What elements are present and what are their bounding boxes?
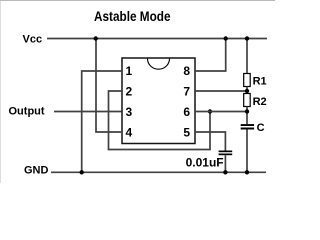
- GND rail wire: [51, 171, 266, 173]
- svg-text:0.01uF: 0.01uF: [186, 155, 224, 169]
- svg-text:Astable Mode: Astable Mode: [94, 8, 171, 24]
- wire pin1 to GND: [82, 71, 122, 172]
- svg-text:5: 5: [183, 125, 190, 139]
- node pin2-pin6 junction: [208, 109, 212, 113]
- node pin1-GND junction: [80, 170, 84, 174]
- wire C to GND: [246, 130, 248, 173]
- wire pin4 to Vcc: [96, 39, 122, 133]
- svg-text:GND: GND: [24, 165, 49, 177]
- node pin8-Vcc junction: [224, 36, 228, 40]
- frame edge left: [0, 1, 1, 183]
- svg-text:Output: Output: [9, 106, 45, 118]
- wire bypass cap to GND: [224, 155, 226, 172]
- wire pin3 output: [54, 111, 122, 113]
- svg-text:4: 4: [126, 125, 133, 139]
- node Vcc-R1 junction: [245, 36, 249, 40]
- node bypass-GND junction: [223, 170, 227, 174]
- capacitor 0.01uF: [219, 151, 233, 156]
- IC U1 555 body: [122, 58, 195, 144]
- resistor R2: [244, 94, 251, 107]
- resistor R1: [244, 74, 251, 87]
- wire Vcc to R1: [246, 39, 248, 74]
- svg-text:Vcc: Vcc: [23, 34, 43, 46]
- node R2-C junction: [245, 109, 249, 113]
- svg-text:R1: R1: [253, 76, 267, 88]
- wire pin7 to R1-R2 junction: [195, 90, 247, 92]
- node R1-R2 junction: [245, 89, 249, 93]
- svg-text:7: 7: [183, 85, 190, 99]
- svg-text:2: 2: [126, 85, 133, 99]
- capacitor C: [241, 124, 254, 129]
- wire pin5 to bypass cap: [195, 132, 225, 151]
- node C-GND junction: [245, 170, 249, 174]
- svg-text:R2: R2: [253, 96, 267, 108]
- svg-text:6: 6: [183, 105, 190, 119]
- svg-text:1: 1: [126, 64, 133, 78]
- frame edge top: [0, 0, 275, 1]
- wire R1 to R2: [246, 87, 248, 94]
- node pin4-Vcc junction: [94, 36, 98, 40]
- svg-text:3: 3: [126, 105, 133, 119]
- wire pin6 to R2-C junction: [195, 111, 247, 113]
- wire pin8 to Vcc: [195, 39, 226, 72]
- wire R2 to C: [246, 107, 248, 125]
- Vcc rail wire: [47, 38, 267, 40]
- svg-text:8: 8: [183, 64, 190, 78]
- wire pin2 loop to pin6: [109, 91, 211, 150]
- svg-text:C: C: [257, 122, 265, 134]
